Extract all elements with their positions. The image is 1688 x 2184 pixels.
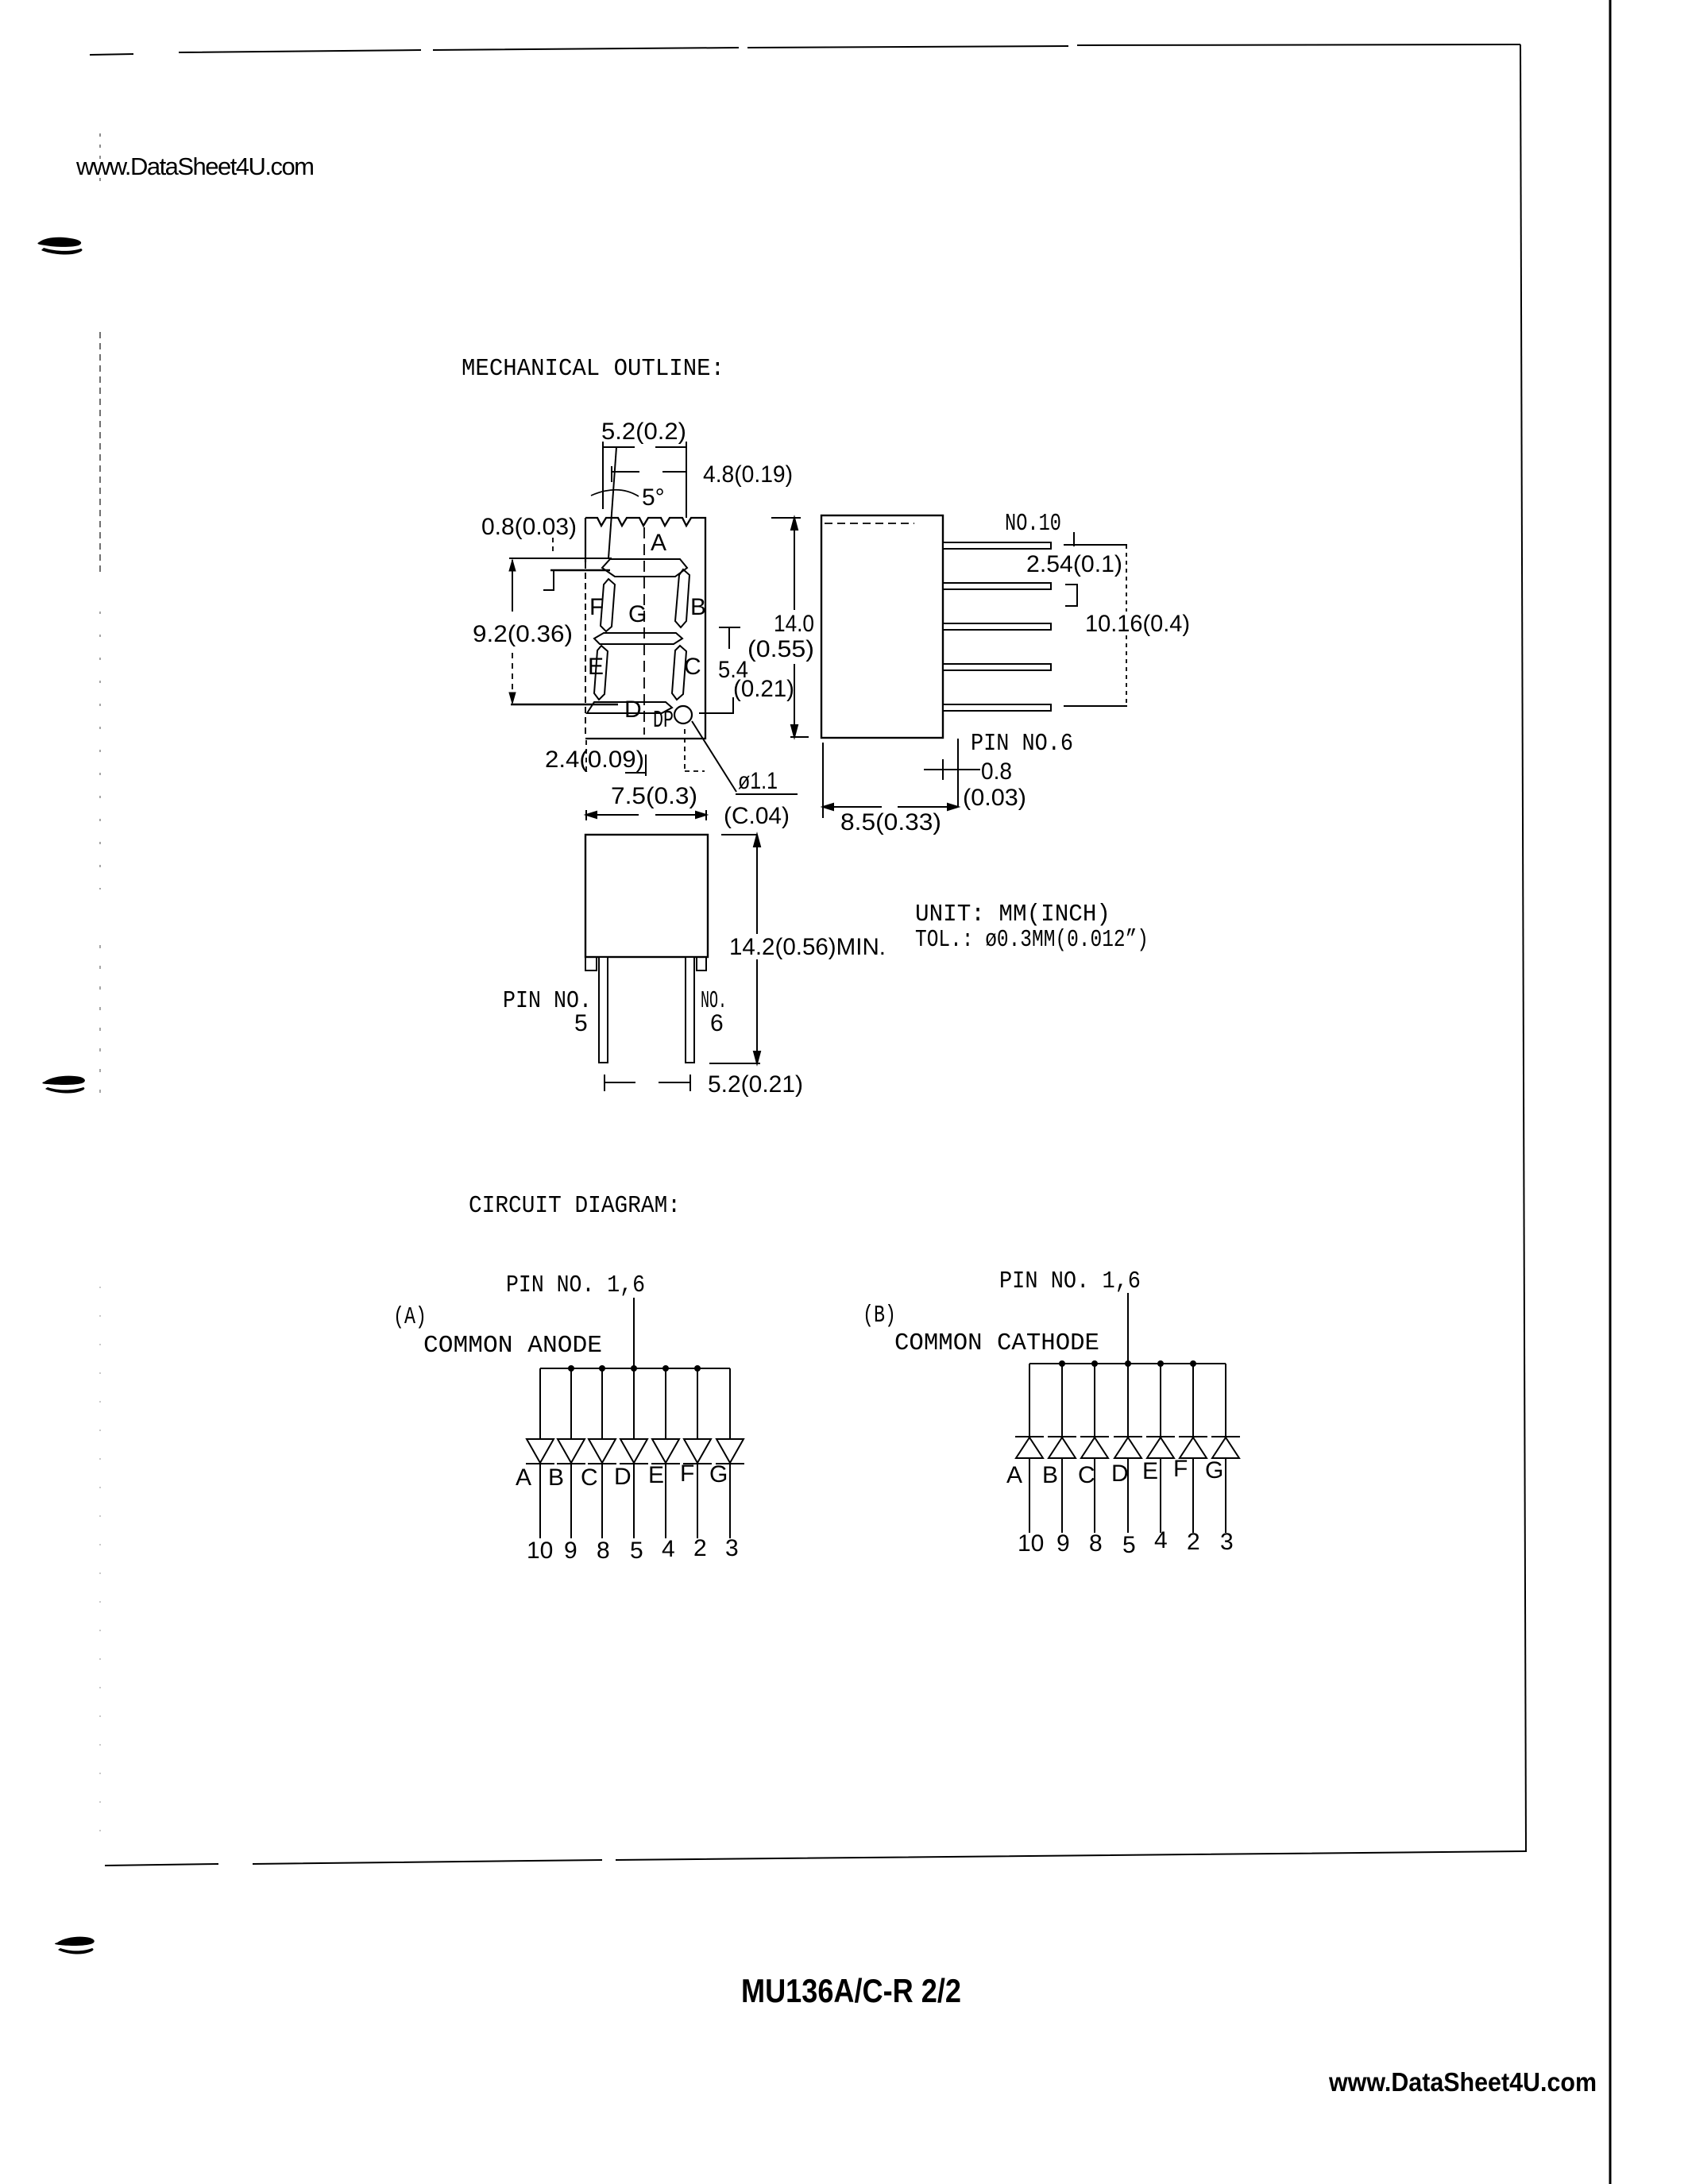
- dim 5.2(0.21): [605, 1075, 690, 1091]
- svg-text:14.2(0.56)MIN.: 14.2(0.56)MIN.: [729, 934, 886, 960]
- dim 7.5(0.3): [586, 810, 706, 820]
- LED body outline with scalloped top: [585, 518, 705, 739]
- wire: bus to anode of diode B: [570, 1368, 572, 1439]
- scan ink blob mid-left: [42, 1076, 85, 1094]
- svg-text:10: 10: [1018, 1530, 1044, 1557]
- junction on bus at diode E wire: [662, 1365, 669, 1372]
- svg-text:4: 4: [662, 1536, 675, 1562]
- junction on bus at diode B wire: [568, 1365, 574, 1372]
- segment B: [675, 569, 689, 627]
- svg-text:9.2(0.36): 9.2(0.36): [473, 621, 573, 647]
- svg-text:www.DataSheet4U.com: www.DataSheet4U.com: [75, 152, 315, 180]
- svg-text:ø1.1: ø1.1: [738, 768, 778, 794]
- wire: anode of diode D to pin 5: [1127, 1458, 1129, 1533]
- svg-text:NO.10: NO.10: [1005, 510, 1061, 538]
- diode LED segment A (common anode): [526, 1439, 554, 1464]
- svg-text:E: E: [1142, 1458, 1158, 1484]
- svg-text:D: D: [1111, 1461, 1129, 1487]
- wire: common anode bus: [540, 1368, 730, 1369]
- svg-text:F: F: [680, 1461, 694, 1487]
- svg-text:PIN NO.6: PIN NO.6: [971, 730, 1073, 758]
- segment C: [672, 646, 686, 700]
- svg-text:5°: 5°: [642, 484, 665, 511]
- diode LED segment F (common anode): [683, 1439, 712, 1464]
- svg-text:G: G: [1205, 1457, 1223, 1484]
- segment F: [601, 579, 615, 631]
- wire: bus to cathode of diode C: [1094, 1364, 1095, 1437]
- svg-text:PIN NO. 1,6: PIN NO. 1,6: [999, 1268, 1141, 1295]
- wire: cathode of diode A to pin 10: [539, 1464, 541, 1538]
- svg-text:3: 3: [725, 1535, 739, 1561]
- wire: bus to anode of diode C: [601, 1368, 603, 1439]
- svg-text:4.8(0.19): 4.8(0.19): [703, 461, 793, 488]
- diode LED segment B (common cathode): [1048, 1437, 1076, 1458]
- junction on bus at diode F wire: [694, 1365, 701, 1372]
- digit centre dashed line: [643, 527, 645, 735]
- page top border: [90, 44, 1526, 1866]
- wire: common cathode bus: [1029, 1363, 1226, 1364]
- svg-text:B: B: [548, 1464, 564, 1491]
- svg-text:A: A: [1006, 1462, 1022, 1488]
- scan ink blob bottom-left: [55, 1937, 95, 1954]
- digit top reference lines: [509, 558, 612, 590]
- wire: bus to anode of diode A: [539, 1368, 541, 1439]
- svg-text:www.DataSheet4U.com: www.DataSheet4U.com: [1328, 2067, 1597, 2097]
- svg-text:UNIT: MM(INCH): UNIT: MM(INCH): [915, 901, 1111, 928]
- svg-text:10.16(0.4): 10.16(0.4): [1085, 611, 1190, 637]
- wire: cathode of diode F to pin 2: [697, 1464, 698, 1538]
- svg-text:D: D: [624, 696, 642, 723]
- svg-text:9: 9: [1056, 1530, 1070, 1557]
- 7-segment digit: [587, 559, 689, 713]
- wire: bus to cathode of diode D: [1127, 1364, 1129, 1437]
- svg-text:(C.04): (C.04): [724, 803, 790, 829]
- diode LED segment E (common cathode): [1146, 1437, 1175, 1458]
- wire: cathode of diode G to pin 3: [729, 1464, 731, 1538]
- svg-text:2: 2: [693, 1535, 707, 1561]
- wire: cathode of diode B to pin 9: [570, 1464, 572, 1538]
- diode LED segment D (common anode): [620, 1439, 648, 1464]
- junction on bus at diode E wire: [1157, 1360, 1164, 1367]
- junction on bus at diode D wire: [1125, 1360, 1131, 1367]
- page left dashed border: [99, 133, 101, 1858]
- svg-text:G: G: [628, 601, 647, 627]
- wire: cathode of diode C to pin 8: [601, 1464, 603, 1538]
- decimal point circle: [674, 706, 692, 723]
- junction on bus at diode F wire: [1190, 1360, 1196, 1367]
- svg-text:8: 8: [597, 1538, 610, 1564]
- wire: bus to anode of diode E: [665, 1368, 666, 1439]
- svg-text:5: 5: [1122, 1532, 1136, 1558]
- dim 9.2(0.36): [509, 560, 618, 704]
- segment G: [594, 633, 682, 644]
- segment letters in front view: [588, 530, 706, 735]
- svg-text:B: B: [690, 594, 706, 620]
- wire: bus to cathode of diode F: [1192, 1364, 1194, 1437]
- 8.5(0.33): [823, 743, 958, 818]
- diode LED segment C (common cathode): [1080, 1437, 1109, 1458]
- wire: pin 1,6 down to anode bus: [633, 1298, 635, 1368]
- wire: anode of diode A to pin 10: [1029, 1458, 1030, 1533]
- diode LED segment C (common anode): [588, 1439, 616, 1464]
- svg-text:E: E: [648, 1462, 664, 1488]
- svg-text:B: B: [1042, 1462, 1058, 1488]
- svg-text:2.54(0.1): 2.54(0.1): [1026, 551, 1122, 577]
- wire: bus to anode of diode G: [729, 1368, 731, 1439]
- wire: bus to anode of diode D: [633, 1368, 635, 1439]
- svg-text:9: 9: [564, 1538, 577, 1564]
- svg-text:(B): (B): [863, 1302, 896, 1329]
- wire: bus to cathode of diode E: [1160, 1364, 1161, 1437]
- segment A: [602, 559, 687, 577]
- svg-text:10: 10: [527, 1538, 553, 1564]
- junction on bus at diode C wire: [599, 1365, 605, 1372]
- svg-text:C: C: [684, 654, 701, 680]
- diode LED segment B (common anode): [557, 1439, 585, 1464]
- diode LED segment G (common cathode): [1211, 1437, 1240, 1458]
- svg-text:COMMON CATHODE: COMMON CATHODE: [894, 1329, 1099, 1357]
- wire: bus to cathode of diode B: [1061, 1364, 1063, 1437]
- dim 14.2: [709, 835, 760, 1063]
- svg-text:8: 8: [1089, 1530, 1103, 1557]
- svg-text:C: C: [581, 1464, 598, 1491]
- diode LED segment G (common anode): [716, 1439, 744, 1464]
- wire: cathode of diode E to pin 4: [665, 1464, 666, 1538]
- scan ink blob top-left: [37, 237, 82, 255]
- 10.16(0.4): [1064, 545, 1127, 706]
- wire: anode of diode G to pin 3: [1225, 1458, 1226, 1533]
- svg-text:G: G: [709, 1461, 728, 1488]
- svg-text:(0.55): (0.55): [747, 636, 814, 662]
- 5 degree tilt line and arc: [608, 447, 616, 558]
- leader to diameter 1.1: [692, 721, 798, 794]
- svg-text:8.5(0.33): 8.5(0.33): [840, 809, 941, 835]
- svg-text:TOL.: ø0.3MM(0.012”): TOL.: ø0.3MM(0.012”): [915, 926, 1149, 954]
- svg-text:(A): (A): [393, 1303, 427, 1331]
- wire: bus to cathode of diode A: [1029, 1364, 1030, 1437]
- svg-text:0.8(0.03): 0.8(0.03): [481, 514, 577, 540]
- svg-text:E: E: [588, 654, 604, 680]
- segment D: [587, 702, 672, 713]
- wire: anode of diode C to pin 8: [1094, 1458, 1095, 1533]
- dim 14.0(0.55): [771, 518, 809, 737]
- svg-text:A: A: [516, 1464, 531, 1491]
- wire: anode of diode E to pin 4: [1160, 1458, 1161, 1533]
- svg-text:MU136A/C-R 2/2: MU136A/C-R 2/2: [741, 1972, 961, 2009]
- dim 4.8(0.19): [612, 466, 686, 482]
- dim 5.2(0.2): [603, 442, 686, 518]
- svg-text:5.2(0.2): 5.2(0.2): [601, 419, 686, 445]
- wire: anode of diode B to pin 9: [1061, 1458, 1063, 1533]
- diode LED segment E (common anode): [651, 1439, 680, 1464]
- junction on bus at diode C wire: [1091, 1360, 1098, 1367]
- svg-text:4: 4: [1154, 1527, 1168, 1553]
- wire: bus to anode of diode F: [697, 1368, 698, 1439]
- page bottom border: [105, 1851, 1526, 1866]
- DP dashed extension: [685, 729, 705, 771]
- svg-text:PIN NO. 1,6: PIN NO. 1,6: [506, 1271, 645, 1299]
- svg-text:(0.03): (0.03): [963, 785, 1026, 811]
- dim 5.4(0.21): [699, 627, 740, 713]
- junction on bus at diode B wire: [1059, 1360, 1065, 1367]
- wire: cathode of diode D to pin 5: [633, 1464, 635, 1538]
- svg-text:F: F: [589, 594, 604, 620]
- svg-text:F: F: [1173, 1456, 1188, 1482]
- diode LED segment A (common cathode): [1015, 1437, 1044, 1458]
- svg-text:5: 5: [630, 1538, 643, 1564]
- 0.8 leader: [924, 739, 980, 807]
- diode LED segment F (common cathode): [1179, 1437, 1207, 1458]
- svg-text:7.5(0.3): 7.5(0.3): [611, 783, 697, 809]
- svg-text:COMMON ANODE: COMMON ANODE: [423, 1332, 602, 1360]
- page right border: [1520, 44, 1526, 1852]
- svg-text:3: 3: [1220, 1529, 1234, 1555]
- svg-text:5.2(0.21): 5.2(0.21): [708, 1071, 803, 1098]
- svg-text:6: 6: [710, 1010, 724, 1036]
- wire: anode of diode F to pin 2: [1192, 1458, 1194, 1533]
- svg-text:A: A: [651, 530, 666, 556]
- wire: bus to cathode of diode G: [1225, 1364, 1226, 1437]
- svg-text:DP: DP: [653, 707, 674, 735]
- dim 2.4(0.09): [586, 740, 646, 776]
- segment E: [594, 646, 608, 700]
- svg-text:CIRCUIT DIAGRAM:: CIRCUIT DIAGRAM:: [469, 1192, 681, 1220]
- wire: pin 1,6 down to cathode bus: [1127, 1293, 1129, 1364]
- svg-text:5: 5: [574, 1010, 588, 1036]
- svg-text:MECHANICAL OUTLINE:: MECHANICAL OUTLINE:: [462, 355, 724, 383]
- svg-text:C: C: [1078, 1462, 1095, 1488]
- svg-text:(0.21): (0.21): [733, 676, 794, 702]
- right margin vertical rule: [1609, 0, 1612, 2184]
- svg-text:D: D: [614, 1464, 632, 1490]
- diode LED segment D (common cathode): [1114, 1437, 1142, 1458]
- svg-text:14.0: 14.0: [774, 611, 814, 637]
- svg-text:0.8: 0.8: [981, 758, 1012, 785]
- junction on bus at diode D wire: [631, 1365, 637, 1372]
- svg-text:2.4(0.09): 2.4(0.09): [545, 747, 644, 773]
- svg-text:2: 2: [1187, 1529, 1200, 1555]
